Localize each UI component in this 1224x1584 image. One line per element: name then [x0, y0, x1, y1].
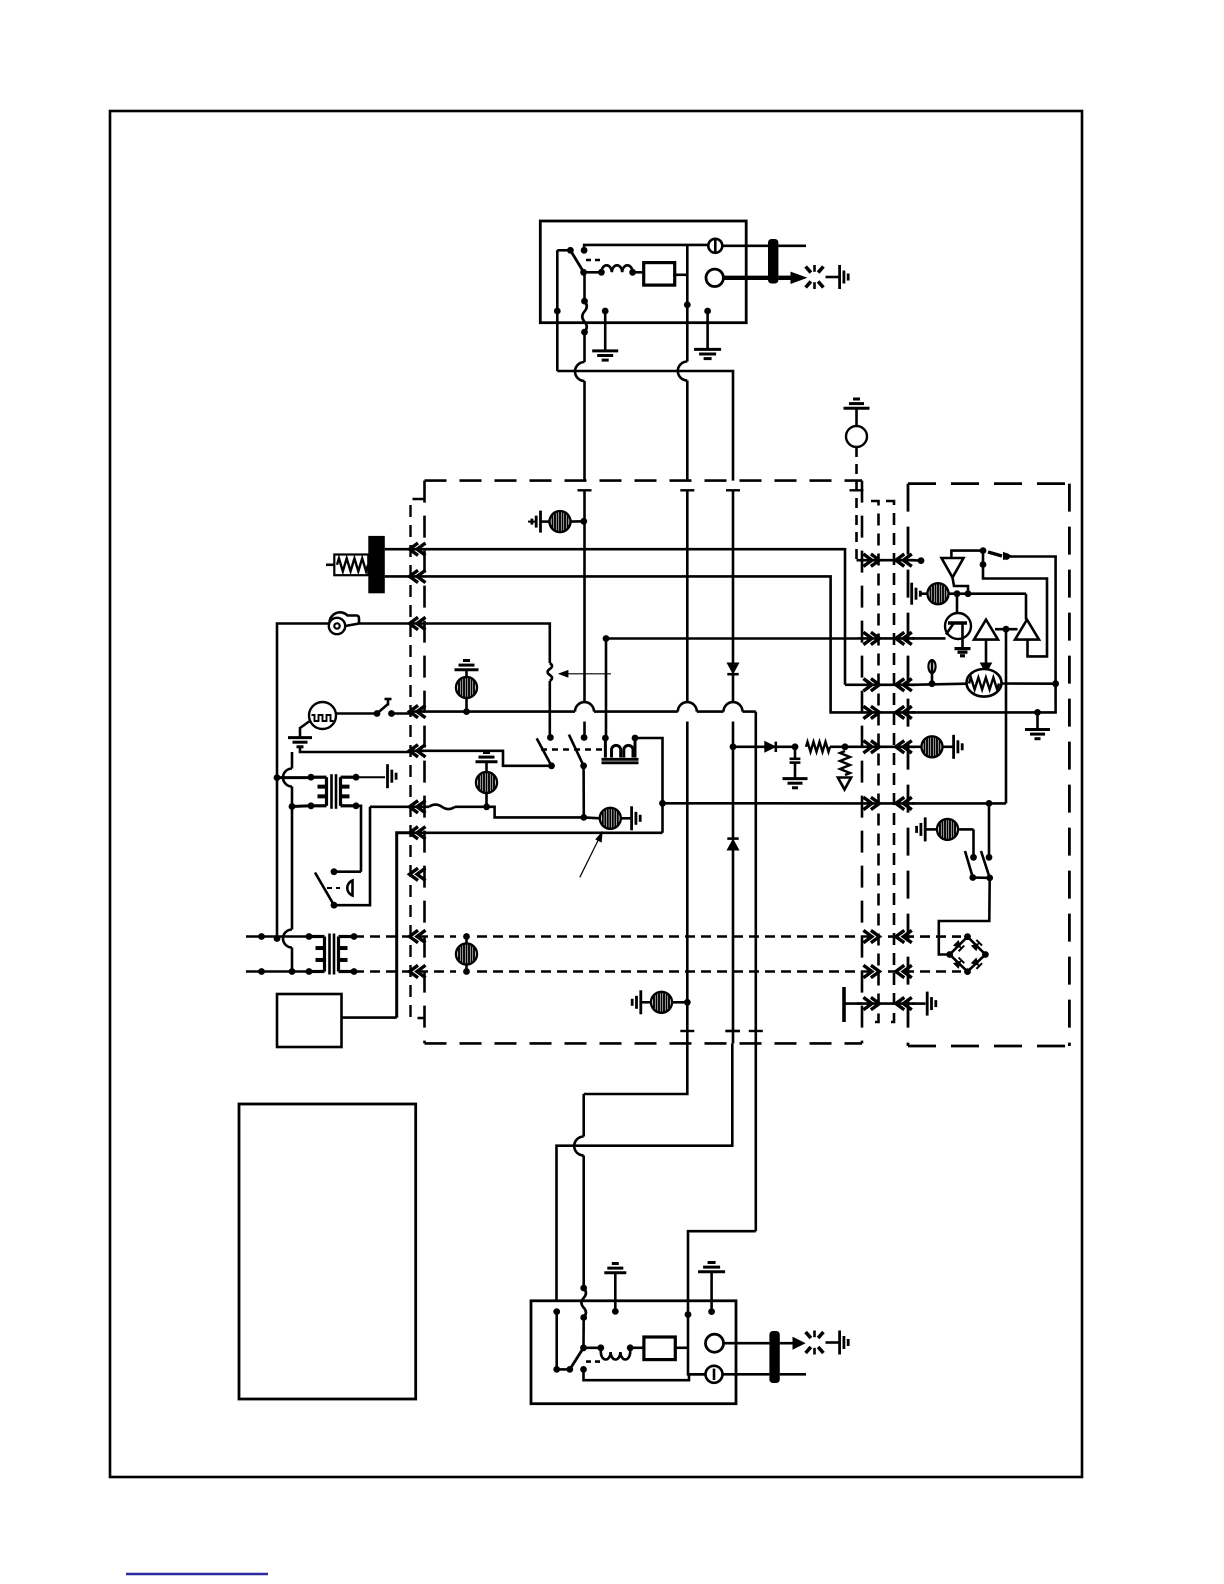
flex squiggle x550: [548, 663, 553, 681]
connector pin Q2 through wire: [857, 637, 915, 640]
wire to solenoid top: [334, 870, 361, 873]
wire T1 bottom-right down: [356, 806, 361, 872]
wire x292 hump over y938: [283, 930, 292, 948]
wire x687 in box upper: [686, 490, 689, 702]
lamp L1: [541, 520, 550, 523]
connector pin Q1 socket arrows: [896, 554, 905, 566]
lamp L9: [927, 828, 938, 831]
wire x1056 drop: [1038, 684, 1056, 713]
right box dashed outline: [908, 482, 1069, 485]
wire x756 from row 712: [754, 712, 757, 1044]
connector pin Q3 through wire: [857, 683, 915, 686]
spark gap 2 lead: [826, 1341, 840, 1344]
oil switch bottom dots: [969, 874, 976, 881]
connector pin Q4 through wire: [857, 711, 915, 714]
wire T1 top-right to comb: [356, 776, 385, 778]
wire x292 lower: [291, 807, 294, 930]
boundary tick x687 bottom: [680, 1030, 694, 1032]
fuel solenoid SV1 bottom dot: [331, 902, 338, 909]
boundary tick x733 bottom: [726, 1030, 740, 1032]
lamp L2: [465, 670, 468, 677]
wire Q3 row: [912, 684, 967, 685]
right connector column B: [886, 501, 894, 1022]
lamp L8: [922, 736, 943, 757]
relay blade2: [569, 735, 584, 766]
high tension lead: [723, 276, 768, 280]
wire x756 to bottom jog: [754, 1043, 757, 1231]
lamp L3 ground: [483, 751, 490, 754]
wire row712 hump x687: [678, 702, 697, 712]
wire coil to module IU2: [630, 1347, 644, 1350]
wire y1146 crossover run: [557, 1043, 733, 1300]
wire row712 to x756: [743, 710, 756, 713]
switch SW2 blade: [988, 552, 1002, 556]
connector pin Q5 plug arrows: [863, 741, 872, 753]
lamp L8 comb: [952, 735, 955, 759]
wire x733 lower: [732, 850, 735, 1043]
wire x370 to P6 row: [370, 805, 410, 808]
connector pin Q5 through wire: [857, 745, 915, 748]
transistor TR1 base lead: [954, 590, 961, 597]
wire x688 node: [685, 1311, 692, 1318]
lamp L5 comb: [639, 990, 642, 1014]
wire row712 mid2: [697, 710, 724, 713]
lamp L1 capacitor comb: [539, 511, 542, 533]
amp link rail: [995, 628, 1018, 631]
wire heater top to P1: [385, 548, 410, 551]
spark gap SP1: [806, 267, 811, 273]
wire x989 drop: [988, 803, 991, 857]
connector pin Q7 socket arrows: [896, 930, 905, 942]
pressure switch PS1: [374, 710, 381, 717]
connector pin Q6 socket arrows: [896, 797, 905, 809]
switch S2 throw dot: [580, 1366, 587, 1373]
wire x687 lower run: [686, 722, 689, 1044]
lamp L3: [476, 772, 497, 793]
ground G1 stem: [604, 311, 607, 351]
wire x733 mid: [732, 722, 735, 747]
diode D1 down: [727, 663, 738, 674]
switch S2 blade: [570, 1348, 584, 1370]
dashed wire Q7 to bridge: [888, 935, 961, 938]
wire x733 diode section: [732, 491, 735, 663]
callout arrow A1: [561, 673, 612, 675]
wire contact2 to terminal T1: [584, 245, 708, 250]
transistor TR1: [945, 613, 971, 639]
rheostat VR1: [967, 669, 1002, 697]
amplifier A2 triangle: [1015, 620, 1039, 640]
wire x277 lower: [276, 778, 279, 939]
diode D3: [765, 742, 776, 752]
switch S1 actuator dashes: [586, 259, 600, 262]
wire P5 to relay: [408, 751, 552, 766]
switch S1 pivot wire: [557, 249, 570, 252]
module box M1: [644, 263, 675, 286]
ground G4: [612, 1262, 619, 1265]
amp A1 output: [985, 640, 988, 666]
ground stem G1 dot: [602, 308, 609, 315]
wire x584 hump over y1146: [574, 1137, 584, 1156]
wire x687 down from IU1: [686, 305, 689, 362]
fuel solenoid SV1 actuator: [327, 887, 340, 889]
connector pin P6 arrows: [410, 801, 419, 813]
terminal T4 circle: [706, 1366, 723, 1383]
wire L9 drop: [972, 829, 975, 857]
HT lead 2 arrow: [780, 1342, 795, 1345]
sensor dashed drop: [855, 447, 858, 560]
wire solenoid bottom: [334, 807, 370, 905]
wire x687 hump over y371: [678, 362, 688, 381]
boundary tick x756 bottom: [749, 1030, 763, 1032]
right connector column A: [871, 501, 879, 1022]
relay contact1 bottom dot: [548, 762, 555, 769]
heater resistor HR1 element: [337, 558, 368, 571]
relay contact2 bottom dot: [580, 762, 587, 769]
connector pin Q3 socket arrows: [896, 679, 905, 691]
dashed wire Q8 to bridge: [888, 970, 961, 973]
wire G10 to P5 row: [300, 748, 410, 752]
terminal T2 circle: [706, 269, 723, 286]
wire T1 top-left lead: [277, 776, 311, 779]
wire row807: [455, 805, 487, 808]
ignition transformer T1: [311, 776, 327, 779]
wire row712 hump x733: [724, 702, 743, 712]
lamp L4 comb: [630, 806, 633, 830]
wire heater bottom to P2: [385, 575, 410, 578]
wire x584 to squiggle: [582, 1156, 585, 1289]
switch S1 pivot dot: [567, 247, 574, 254]
wire coil to module: [633, 271, 644, 274]
connector pin Q6 through wire: [857, 802, 915, 805]
wire jog y1231: [688, 1231, 756, 1301]
connector pin P4 arrows: [410, 705, 419, 717]
bridge BR1 outline: [950, 937, 986, 972]
wire blower to P3: [359, 622, 408, 625]
dashed wire row937 right: [477, 935, 872, 938]
wire row712 hump x584: [575, 702, 594, 712]
wire T1 bottom-left lead: [292, 804, 311, 808]
heater resistor HR1 outline: [334, 555, 368, 576]
page border frame: [110, 111, 1082, 1477]
wire x1026 to amp2: [1025, 594, 1028, 620]
T1 secondary comb: [386, 764, 389, 788]
wire row712 main: [408, 710, 575, 713]
module box M2: [644, 1337, 675, 1360]
lamp L1 stub: [528, 521, 536, 523]
connector end bracket: [842, 987, 846, 1022]
relay gang dashes: [541, 748, 604, 751]
coil L2: [584, 1347, 601, 1350]
wire row712 mid: [594, 710, 678, 713]
ground G2 stem: [706, 311, 709, 349]
heater stub lead: [326, 563, 334, 566]
connector pin P9 arrows: [410, 930, 419, 942]
wire blade2 drop: [582, 766, 585, 818]
connector pin Q8 socket arrows: [896, 965, 905, 977]
switch S2 actuator dashes: [586, 1360, 600, 1363]
callout arrow A2: [580, 838, 600, 878]
wire Q5 row: [912, 745, 922, 748]
wire row807 to row817: [487, 807, 584, 818]
wire P3 to relay drop: [408, 624, 550, 664]
oil switch blades: [965, 851, 973, 878]
wire Q2 to transistor: [912, 637, 946, 640]
ignition module box IU2: [531, 1301, 736, 1404]
node x733 row747: [730, 743, 737, 750]
terminal T3 circle: [706, 1334, 724, 1352]
connector pin Q9 plug arrows: [863, 997, 872, 1009]
ground G7: [955, 647, 971, 650]
wire row803 to plug: [663, 802, 858, 805]
wire module to node x687: [675, 273, 688, 276]
boundary tick x687: [680, 489, 694, 491]
wire Q6 row: [912, 802, 1007, 805]
wire x584 to dashed box: [583, 381, 586, 481]
ground G6 stem: [1036, 712, 1039, 729]
relay coil RL1: [605, 738, 635, 758]
relay blade1: [537, 738, 552, 765]
wire blower left down: [277, 624, 330, 778]
lamp L7: [919, 592, 927, 595]
dashed wire row937 left: [354, 935, 456, 938]
wire x584 into bottom module: [582, 1094, 585, 1137]
node x277 T1 tap: [274, 774, 281, 781]
switch S2 pivot wire: [557, 1368, 570, 1371]
wire Q1 tail: [912, 559, 922, 562]
terminal T1 circle: [708, 239, 722, 253]
wire x292 mid: [291, 787, 294, 807]
flex squiggle IU2: [581, 1288, 586, 1318]
spark gap SP2: [806, 1332, 811, 1338]
connector pin Q4 plug arrows: [863, 706, 872, 718]
spark plug 2 comb: [838, 1331, 841, 1355]
boundary tick x733: [726, 489, 740, 491]
ground G8: [783, 777, 808, 780]
wire T4 to bar: [723, 1373, 770, 1376]
wire Q4 row: [912, 711, 1038, 714]
fuel solenoid SV1 blade: [315, 873, 334, 906]
spark plug electrode comb: [838, 265, 841, 289]
gauge left lead: [300, 721, 311, 738]
wire P2 to corner x830: [408, 576, 857, 712]
sensor circle SC1: [853, 398, 860, 401]
wire row685 to plug: [845, 683, 857, 686]
footer rule: [126, 1573, 268, 1576]
switch S1 blade: [570, 250, 584, 273]
wire x687 to dashed box: [686, 381, 689, 481]
connector pin Q5 socket arrows: [896, 741, 905, 753]
buzzer top lead: [951, 551, 983, 558]
switch S1 throw contact dot: [581, 247, 588, 254]
wire stub after bar bottom: [780, 1373, 806, 1376]
switch S2 common dot: [580, 1344, 587, 1351]
wire row638: [606, 637, 857, 640]
wire row833 long: [408, 831, 663, 834]
connector bar CB2: [769, 1331, 779, 1383]
wire VR1 out: [1002, 682, 1056, 685]
T2 left stubs: [246, 935, 309, 938]
connector pin P3 arrows: [410, 617, 419, 629]
relay box RB (empty): [277, 994, 342, 1047]
wire row747 b: [776, 745, 795, 748]
wire S1 to coil: [584, 271, 602, 274]
lamp L5: [642, 1001, 651, 1004]
wire x557 pivot feed bottom: [553, 1308, 560, 1315]
coil L1: [601, 265, 632, 272]
node row638: [603, 635, 610, 642]
ground G1: [592, 349, 618, 352]
wire x584 hump over y371: [575, 362, 585, 381]
boundary tick x584: [578, 489, 592, 491]
fuel solenoid SV1 top dot: [331, 868, 338, 875]
wire x733 to diode D2: [732, 747, 735, 839]
signal ground G9 triangle: [838, 778, 851, 790]
spark gap lead: [826, 276, 840, 279]
ground G2: [694, 348, 721, 351]
wire x292 end: [291, 948, 294, 972]
wire T1 to connector bar: [722, 245, 768, 248]
node x687 lamp L5 tap: [684, 999, 691, 1006]
resistor R2: [840, 751, 850, 775]
blower motor B1: [329, 618, 345, 634]
capacitor C1: [794, 747, 797, 758]
dashed wire row972 right: [477, 970, 872, 973]
connector pin Q1 through wire: [857, 559, 915, 562]
heater block bar: [368, 536, 385, 593]
bridge diode marks: [953, 940, 964, 951]
vertical wire x687 inside IU1: [686, 245, 689, 305]
wire stub after bar top: [778, 245, 806, 248]
ground stem G2 dot: [704, 308, 711, 315]
dashed wire row972 left: [354, 970, 456, 973]
connector pin Q4 socket arrows: [896, 706, 905, 718]
wire x687 bottom jog: [584, 1043, 688, 1094]
connector pin P2 arrows: [410, 570, 419, 582]
connector pin P10 arrows: [410, 965, 419, 977]
ground G4 stem: [614, 1273, 617, 1312]
fuel gauge sender FG1: [309, 702, 336, 729]
switch S1 common contact dot: [580, 269, 587, 276]
connector pin Q2 socket arrows: [896, 632, 905, 644]
wire P6 flex: [408, 805, 429, 808]
resistor R1: [806, 742, 830, 752]
hour meter box HM (empty): [239, 1104, 416, 1399]
wire x584 to relay contact: [583, 722, 586, 738]
wire SW2 to x1056: [1007, 557, 1056, 684]
wire x584 in box upper: [583, 490, 586, 702]
gauge right lead: [336, 712, 374, 715]
connector bar CB1: [768, 239, 778, 284]
comb ground right of Q9: [912, 1002, 926, 1005]
flex lead squiggle below S1: [583, 272, 586, 301]
connector pin Q9 socket arrows: [896, 997, 905, 1009]
ground G6: [1025, 728, 1050, 731]
ground G5: [708, 1261, 716, 1264]
wire sensor to plug: [857, 559, 859, 562]
wire coil to x662: [635, 738, 663, 803]
lamp L2 ground: [463, 659, 470, 662]
connector pin P7 arrows: [410, 827, 419, 839]
connector pin Q6 plug arrows: [863, 797, 872, 809]
buzzer apex lead: [953, 578, 969, 594]
wire row747 a: [733, 745, 765, 748]
connector pin P5 arrows: [410, 745, 419, 757]
node below switch: [980, 561, 987, 568]
lamp L6: [456, 944, 477, 965]
connector pin Q3 plug arrows: [863, 679, 872, 691]
wire y371 crossover run: [557, 371, 733, 481]
wire x606 to coil: [605, 639, 608, 739]
connector pin P8 arrows: [410, 868, 419, 880]
wire row747 c: [830, 745, 845, 748]
high tension lead 2: [724, 1342, 770, 1345]
wire hot lead x584 upper: [583, 332, 586, 362]
diode D2 up: [727, 837, 738, 840]
left connector column: [411, 499, 425, 1018]
wire RB to riser: [342, 1016, 397, 1019]
connector pin P1 arrows: [410, 543, 419, 555]
wire x557 pivot feed: [556, 250, 559, 371]
wire x292 hump over y778: [283, 769, 292, 787]
bridge vertex dots: [964, 933, 971, 940]
boundary tick x732 bottom: [725, 1030, 739, 1032]
riser x397: [397, 833, 410, 1018]
pulse transformer T2: [309, 935, 325, 938]
connector pin Q7 plug arrows: [863, 930, 872, 942]
wire squiggle to contact: [582, 1318, 585, 1348]
wire P1 to corner x845: [408, 549, 845, 685]
control box dashed outline: [425, 479, 863, 482]
wire x688 to T4: [688, 1348, 706, 1375]
HT lead arrow: [778, 276, 793, 280]
ignition module box IU1: [540, 221, 746, 323]
wire x292 feed: [291, 752, 294, 769]
node lamp L1 tap: [580, 518, 587, 525]
connector pin Q8 plug arrows: [863, 965, 872, 977]
thermo sensor TH1: [931, 661, 934, 674]
wire x662 lower: [661, 803, 664, 833]
lamp L9 comb: [924, 817, 927, 841]
ground G5 stem: [710, 1272, 713, 1312]
boundary tick sensor wire: [850, 489, 864, 491]
amplifier A1 triangle: [974, 620, 998, 640]
wire module M2 to x688: [675, 1347, 688, 1350]
lamp L4: [584, 816, 600, 819]
wire loop y578: [983, 565, 1047, 657]
buzzer BZ1 triangle: [942, 558, 964, 578]
wire to bridge: [939, 878, 990, 955]
wire x550 to contact: [548, 681, 551, 738]
wire amp rail drop: [1005, 629, 1008, 803]
lamp L7 comb: [910, 583, 913, 605]
wire contact2 to T4: [584, 1369, 706, 1380]
connector pin Q9 through wire: [857, 1002, 915, 1005]
connector pin Q2 plug arrows: [863, 632, 872, 644]
ground G10: [288, 736, 312, 739]
connector pin Q1 plug arrows: [863, 554, 872, 566]
